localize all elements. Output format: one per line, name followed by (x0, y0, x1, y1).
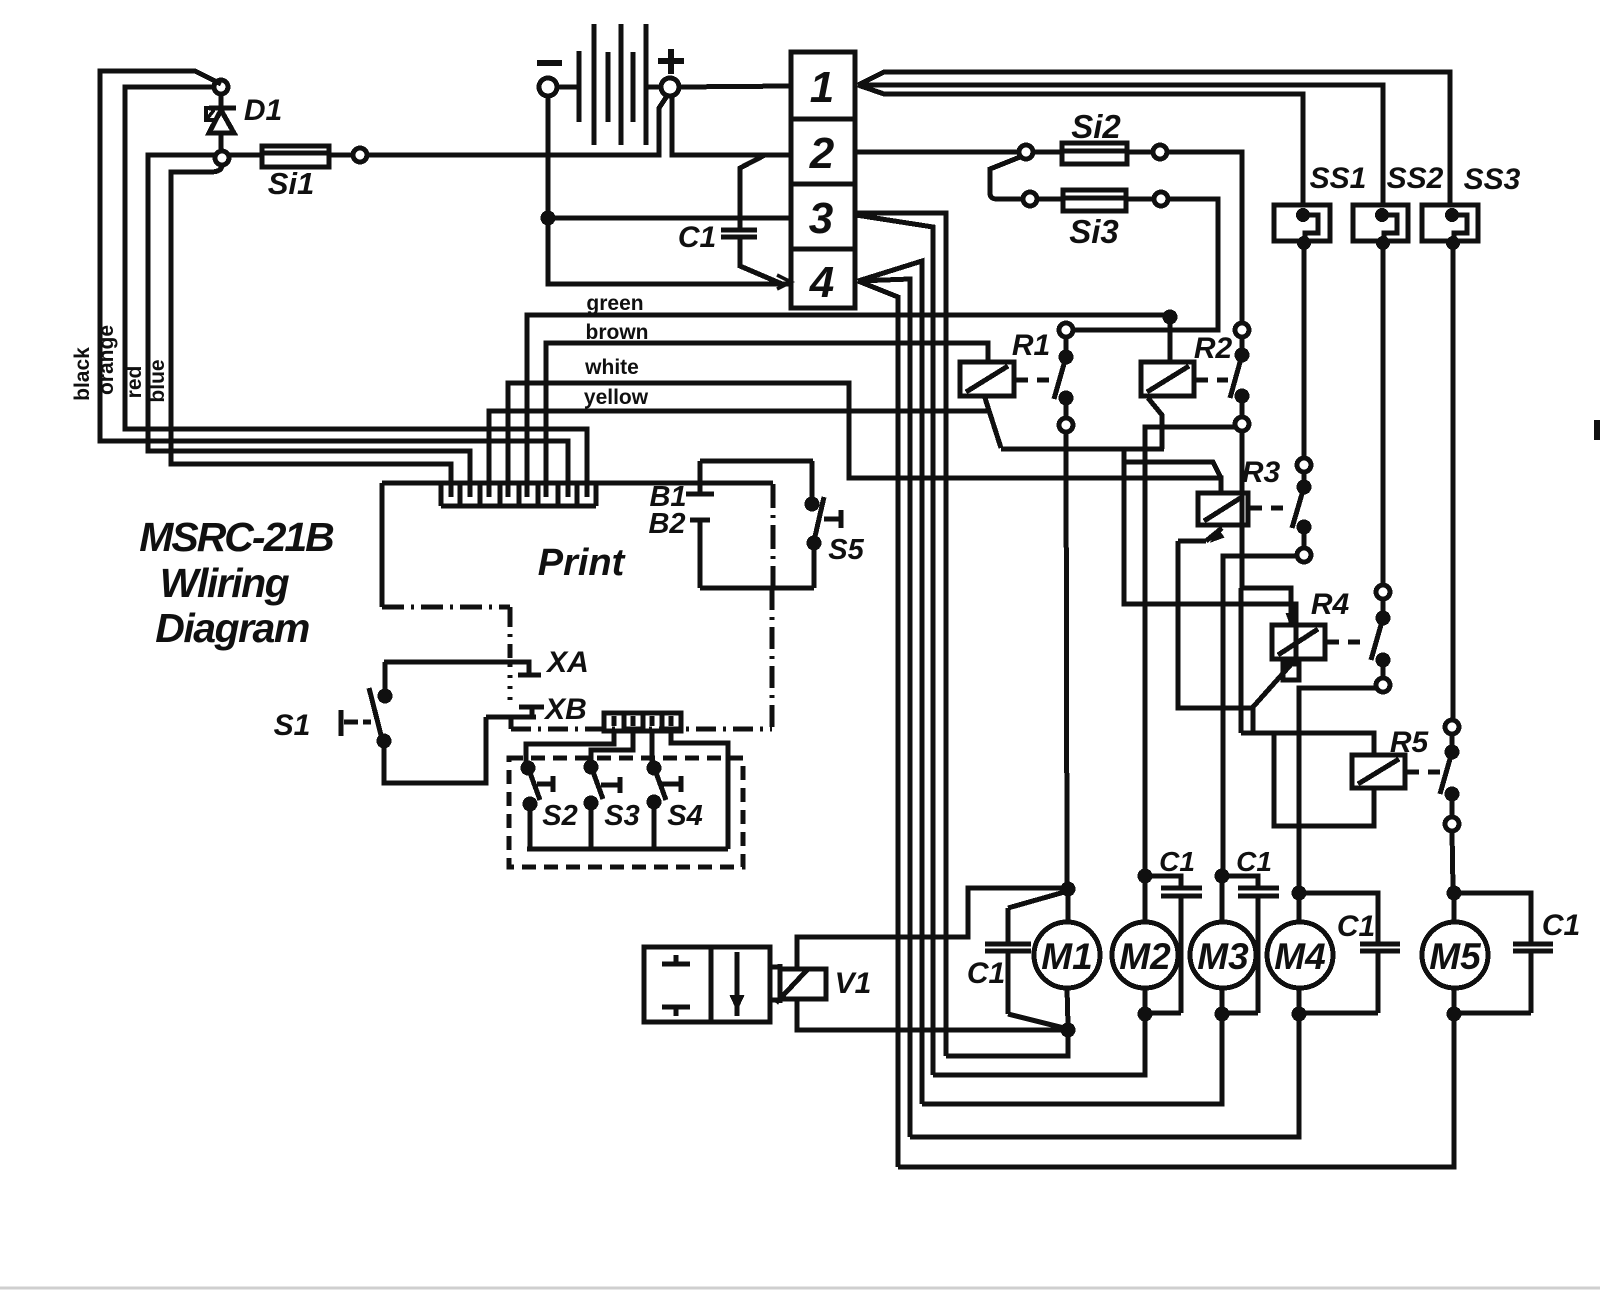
wire battery minus down (546, 96, 551, 218)
wire comb to S2 (526, 731, 614, 763)
label C1 at M2 (1159, 846, 1195, 877)
svg-text:Diagram: Diagram (155, 605, 309, 651)
label R3 (1242, 456, 1281, 489)
label R4 (1311, 588, 1350, 621)
wire R2 coil bottom (1148, 398, 1162, 449)
svg-text:M1: M1 (1041, 936, 1092, 977)
fuse Si3 (1023, 190, 1168, 211)
wire red vertical left (148, 155, 470, 486)
wire orange vertical left (125, 87, 587, 486)
wire M4 bottom to bundle (910, 1014, 1299, 1137)
wire blue vertical left (171, 165, 451, 486)
wire M1 top lead (1066, 889, 1071, 922)
svg-text:C1: C1 (1236, 846, 1272, 877)
label V1 (835, 967, 872, 1000)
wire M3 top lead (1220, 876, 1225, 922)
wire M5 bottom lead (1452, 988, 1457, 1013)
label yellow (584, 386, 649, 409)
wire R2 contact to R4 loop (1240, 431, 1245, 588)
title MSRC-21B (139, 514, 334, 560)
wire V1 bottom rail (797, 1000, 1063, 1030)
svg-text:M2: M2 (1119, 936, 1171, 977)
svg-text:D1: D1 (244, 94, 282, 127)
node dot M4 top (1294, 888, 1304, 898)
connector block pins 1-4 (791, 52, 855, 308)
dashed enclosure S2 S3 S4 (509, 758, 743, 867)
label M2 (1119, 936, 1171, 977)
label C1 at M4 (1337, 910, 1375, 943)
label Si1 (268, 166, 315, 201)
wire R4 loop vertical (1239, 588, 1244, 733)
dashed link R3 (1250, 506, 1290, 511)
svg-text:M5: M5 (1429, 936, 1482, 977)
dashed link R4 (1327, 640, 1365, 645)
svg-text:S3: S3 (604, 800, 639, 832)
relay contact R3 (1292, 458, 1311, 562)
relay contact R1 (1054, 323, 1073, 432)
svg-text:S2: S2 (542, 800, 577, 832)
capacitor C1 at M3 (1222, 876, 1279, 1013)
relay contact R4 (1371, 585, 1390, 692)
label C1 at M5 (1542, 909, 1580, 942)
label SS1 (1310, 162, 1367, 195)
wire minus down to pin4 rail (548, 218, 791, 284)
wire white (508, 383, 1221, 493)
print board left edge (380, 483, 385, 607)
wire M4 top lead (1297, 893, 1302, 922)
switch S2 (523, 763, 553, 849)
motor M2 (1112, 922, 1178, 988)
label Si3 (1069, 213, 1119, 250)
label S3 (604, 800, 639, 832)
node dot M3 top (1217, 871, 1227, 881)
svg-text:Si1: Si1 (268, 166, 315, 201)
wire pin4 upper to bundle (858, 261, 922, 1104)
node junction dot minus rail (543, 213, 553, 223)
svg-text:brown: brown (586, 321, 649, 344)
wire M1 bottom to bundle (946, 1030, 1068, 1056)
wire B1B2 top rail (700, 459, 813, 464)
wire R4 coil bottom diagonal (1253, 661, 1299, 707)
wire comb to S4 (650, 731, 655, 763)
thermal switch SS3 (1422, 205, 1478, 248)
svg-text:R2: R2 (1194, 332, 1233, 365)
label SS3 (1464, 163, 1521, 196)
wire R3 coil top loop (1124, 462, 1221, 478)
node terminal circle after Si1 (353, 148, 367, 162)
svg-text:yellow: yellow (584, 386, 649, 409)
svg-text:white: white (584, 356, 639, 379)
svg-text:M3: M3 (1197, 936, 1249, 977)
wire M2 bottom lead (1143, 988, 1148, 1013)
svg-text:V1: V1 (835, 967, 872, 1000)
wire SS1 to R3 contact (1302, 243, 1307, 458)
scanner artifact line (0, 1287, 1600, 1290)
svg-text:SS2: SS2 (1387, 162, 1444, 195)
wire XB to S1 bottom (384, 717, 486, 783)
svg-text:R4: R4 (1311, 588, 1350, 621)
svg-text:orange: orange (95, 325, 118, 395)
svg-text:SS1: SS1 (1310, 162, 1367, 195)
wire M4 bottom lead (1297, 988, 1302, 1013)
svg-text:black: black (71, 347, 94, 401)
relay contact R2 (1230, 323, 1249, 431)
wire pin2 to Si2 (855, 150, 1019, 155)
svg-text:Wliring: Wliring (160, 560, 290, 606)
svg-text:R5: R5 (1390, 726, 1430, 759)
svg-text:green: green (586, 292, 643, 315)
svg-text:3: 3 (809, 194, 833, 243)
label XA (545, 646, 589, 679)
motor M4 (1267, 922, 1333, 988)
diode D1 (206, 94, 236, 151)
wire Si1 to battery plus (367, 96, 667, 155)
label B2 (648, 508, 685, 540)
thermal switch SS2 (1353, 205, 1408, 248)
switch S5 (807, 461, 841, 588)
capacitor C1 main (721, 230, 757, 237)
fuse Si2 (1019, 143, 1167, 164)
node dot M5 top (1449, 888, 1459, 898)
dashed link R2 (1196, 378, 1228, 383)
dashed link R5 (1407, 770, 1443, 775)
node dot M2 top (1140, 871, 1150, 881)
svg-text:Print: Print (538, 542, 626, 584)
node terminal circle top-left (214, 80, 228, 94)
label M3 (1197, 936, 1249, 977)
relay coil R1 (960, 362, 1014, 396)
wire M5 bottom to bundle (898, 1014, 1454, 1167)
wire M3 bottom to bundle (922, 1014, 1222, 1104)
wire R4 coil top loop (1241, 588, 1296, 625)
svg-text:S4: S4 (667, 800, 702, 832)
label R2 (1194, 332, 1233, 365)
connector comb on print (441, 484, 596, 506)
wire pin1 arrow to SS1 (858, 85, 1303, 205)
wire R2 contact to M2 (1145, 427, 1235, 871)
svg-text:Si3: Si3 (1069, 213, 1119, 250)
svg-text:M4: M4 (1274, 936, 1325, 977)
label Si2 (1071, 108, 1121, 145)
label SS2 (1387, 162, 1444, 195)
wire R5 contact to M5 (1452, 831, 1453, 888)
node dot M1 top (1063, 884, 1073, 894)
label S5 (828, 534, 864, 566)
node dot M2 bottom (1140, 1009, 1150, 1019)
label green (586, 292, 643, 315)
motor M3 (1190, 922, 1256, 988)
svg-text:XB: XB (543, 693, 587, 726)
label S1 (274, 709, 311, 742)
wire black vertical left (100, 71, 568, 486)
label R1 (1012, 329, 1050, 362)
connector comb S2S3S4 (604, 713, 681, 731)
chain line print right edge (771, 484, 776, 588)
wire M2 top lead (1143, 876, 1148, 922)
wire R1 coil bottom diagonal (985, 398, 1001, 448)
svg-text:B2: B2 (648, 508, 685, 540)
title Wliring (160, 560, 290, 606)
label D1 (244, 94, 282, 127)
pin number 4 (809, 258, 834, 307)
switch S4 (649, 763, 681, 849)
capacitor C1 at M5 (1454, 893, 1553, 1013)
node dot M4 bottom (1294, 1009, 1304, 1019)
wire B1B2 bottom rail (700, 586, 814, 591)
relay coil R3 (1198, 493, 1248, 525)
wire yellow (489, 411, 988, 486)
pin number 3 (809, 194, 833, 243)
wire pin4 lower to bundle (858, 281, 898, 1167)
label M1 (1041, 936, 1092, 977)
svg-text:2: 2 (809, 129, 835, 178)
contact XB (486, 707, 544, 729)
svg-text:S1: S1 (274, 709, 311, 742)
relay coil R5 (1352, 755, 1405, 788)
battery B1 (686, 461, 714, 494)
label Print (538, 542, 626, 584)
svg-text:R1: R1 (1012, 329, 1050, 362)
wire green down to R2 coil (1168, 317, 1173, 362)
title Diagram (155, 605, 309, 651)
switch S1 (341, 662, 390, 746)
wire brown (546, 343, 988, 486)
relay coil R4 (1272, 625, 1325, 659)
print board chain edge to XA (382, 607, 510, 700)
label R5 (1390, 726, 1430, 759)
wire S-box bottom bus (527, 847, 728, 852)
wire rail down loop to R4 coil bottom (1124, 449, 1296, 662)
wire M3 bottom lead (1220, 988, 1225, 1013)
fuse Si1 (229, 146, 353, 167)
wire comb to S-box right (671, 731, 728, 849)
wire Si3 to R1 contact (1073, 199, 1218, 330)
node dot green to R2 coil (1165, 312, 1175, 322)
svg-text:C1: C1 (678, 221, 716, 254)
wire Si2 to Si3 loop (990, 157, 1023, 199)
wire green (527, 315, 1170, 486)
node terminal circle below D1 (215, 151, 229, 165)
svg-text:SS3: SS3 (1464, 163, 1521, 196)
label M5 (1429, 936, 1482, 977)
svg-text:Si2: Si2 (1071, 108, 1121, 145)
print board top edge (382, 481, 773, 486)
scanner artifact blob right edge (1594, 420, 1600, 440)
battery plus terminal (646, 49, 791, 96)
wire pin3 straight to bundle (855, 213, 946, 1056)
wire R1 contact to M1 (1066, 432, 1067, 884)
wire R4 contact to M4 (1299, 688, 1376, 888)
battery GB plates (579, 24, 646, 145)
wire M2 bottom to bundle (933, 1014, 1145, 1075)
label C1 at M1 (967, 957, 1005, 990)
label XB (543, 693, 587, 726)
wire SS3 to R5 contact (1451, 243, 1456, 720)
transistor V1 (770, 964, 826, 1003)
label C1 main (678, 221, 716, 254)
pin number 2 (809, 129, 835, 178)
switch S3 (586, 762, 620, 849)
wire SS2 to R4 contact (1381, 243, 1386, 585)
wire V1 top rail (797, 888, 1063, 968)
chain line XB to B1B2 loop (511, 727, 772, 732)
dashed link R1 (1016, 378, 1055, 383)
label white (584, 356, 639, 379)
wire R4R5 coil rail (1241, 733, 1374, 755)
pin number 1 (810, 63, 834, 112)
label S4 (667, 800, 702, 832)
relay contact R5 (1440, 720, 1459, 831)
contact XA (384, 662, 541, 675)
motor M5 (1422, 922, 1488, 988)
svg-text:red: red (123, 366, 146, 399)
svg-text:R3: R3 (1242, 456, 1281, 489)
capacitor C1 at M1 (985, 891, 1068, 1029)
wire minus to pin3 (548, 216, 791, 221)
label red (123, 366, 146, 399)
svg-text:1: 1 (810, 63, 834, 112)
label black (71, 347, 94, 401)
wire R3 coil bottom chain (1178, 528, 1253, 733)
wire Si2 to R2 contact (1167, 152, 1242, 323)
label C1 at M3 (1236, 846, 1272, 877)
battery minus terminal (537, 63, 579, 96)
svg-text:MSRC-21B: MSRC-21B (139, 514, 334, 560)
node dot M3 bottom (1217, 1009, 1227, 1019)
svg-text:C1: C1 (967, 957, 1005, 990)
wire C1 bottom to pin4 rail (740, 237, 782, 284)
wire R5 coil bottom loop (1274, 733, 1374, 826)
label B1 (649, 481, 686, 513)
wire battery plus down to rail (672, 96, 791, 155)
wire M1 bottom lead (1067, 988, 1068, 1025)
label orange (95, 325, 118, 395)
wire M5 top lead (1452, 893, 1457, 922)
wire pin1 to SS2 (858, 85, 1383, 205)
label brown (586, 321, 649, 344)
wire comb to S3 (591, 731, 633, 762)
svg-text:4: 4 (809, 258, 834, 307)
wire pin4 middle to bundle (858, 279, 910, 1137)
wire coil return rail (1001, 447, 1164, 452)
wire R3 contact to M3 (1223, 556, 1297, 871)
thermal switch SS1 (1274, 205, 1330, 248)
relay coil R2 (1141, 362, 1194, 396)
svg-text:XA: XA (545, 646, 589, 679)
node dot M5 bottom (1449, 1009, 1459, 1019)
svg-text:C1: C1 (1159, 846, 1195, 877)
capacitor C1 at M4 (1299, 893, 1400, 1013)
label S2 (542, 800, 577, 832)
wire pin3 branch to bundle (856, 215, 933, 1075)
node dot M1 bottom (1063, 1025, 1073, 1035)
svg-text:blue: blue (146, 359, 169, 402)
svg-text:C1: C1 (1542, 909, 1580, 942)
wire branch to C1 top (740, 155, 765, 230)
wire pin1 arrow to SS3 (858, 72, 1450, 205)
chain line B1B2 loop right vertical (770, 588, 775, 729)
sensor box left of V1 (644, 947, 770, 1022)
label blue (146, 359, 169, 402)
arrow into pin4 (777, 275, 791, 289)
motor M1 (1034, 922, 1100, 988)
svg-text:C1: C1 (1337, 910, 1375, 943)
battery B2 (690, 520, 710, 588)
capacitor C1 at M2 (1145, 876, 1202, 1013)
svg-text:S5: S5 (828, 534, 864, 566)
label M4 (1274, 936, 1325, 977)
